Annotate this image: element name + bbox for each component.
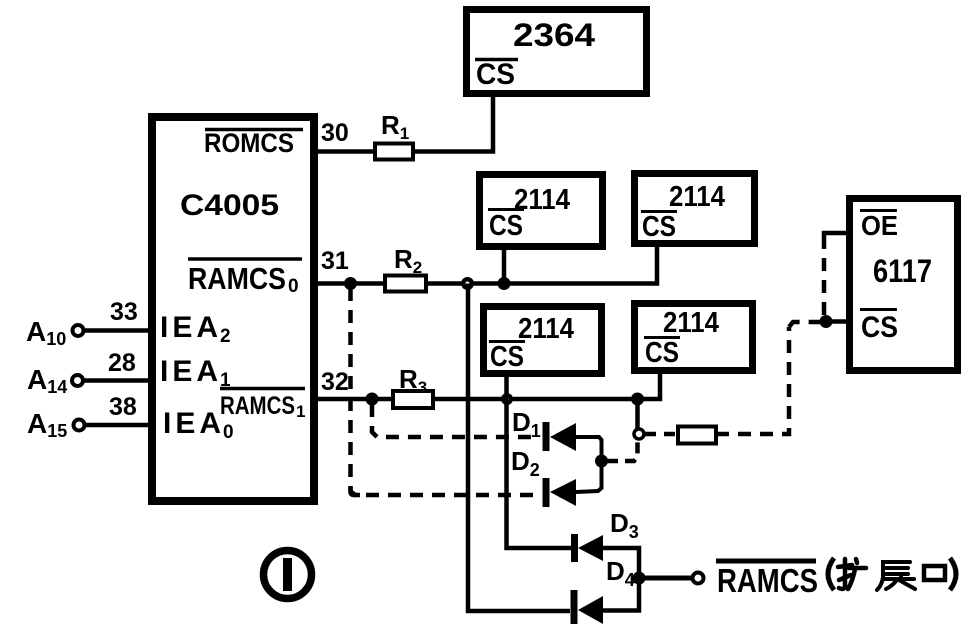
wire node32c down to ring	[635, 399, 640, 429]
IC 2114 box U3 top-left	[480, 175, 603, 247]
IC 2114 box U5 bottom-left	[484, 307, 602, 374]
wire D1 anode to node D	[576, 437, 602, 456]
diode D4 cathode bar	[571, 590, 578, 624]
wire D2 anode to node D	[576, 466, 602, 492]
pin CS 6117 overline	[860, 308, 897, 311]
svg-text:CS: CS	[489, 210, 523, 242]
pin CS of 2364 overline	[475, 58, 518, 62]
diode D4 triangle	[578, 596, 603, 624]
pin CS U5 overline	[489, 340, 525, 343]
wire pin32 RAMCS1 bus	[314, 397, 393, 402]
wire node E to output terminal	[645, 576, 691, 581]
resistor R2 body	[385, 276, 426, 292]
figure number circled 1	[264, 551, 312, 599]
dashed wire R4 to 6117 CS	[716, 327, 789, 434]
annotation closing paren	[950, 558, 956, 590]
wire node G to 6117 CS pin	[826, 319, 846, 324]
input terminal A15 ring	[74, 420, 85, 431]
input terminal A10 ring	[73, 325, 84, 336]
annotation (expansion port) opening paren	[828, 558, 834, 590]
svg-text:2114: 2114	[518, 313, 574, 345]
junction dot node32c	[631, 393, 644, 406]
wire A10 to IEA2	[84, 328, 149, 333]
dashed wire corner to dot G	[789, 322, 820, 327]
junction dot node32b	[501, 393, 513, 405]
svg-text:CS: CS	[490, 341, 524, 373]
IC 2114 box U6 bottom-right	[635, 304, 753, 371]
dashed wire node G up to OE	[822, 238, 827, 315]
pin RAMCS0 overline	[188, 257, 302, 261]
svg-text:38: 38	[109, 393, 137, 421]
dashed wire node32a down to D1 cathode	[372, 404, 540, 437]
diode D1 triangle	[550, 423, 576, 451]
svg-text:6117: 6117	[873, 253, 932, 289]
wire R3 east to 2114 U6	[433, 372, 660, 399]
diode D2 cathode bar	[543, 478, 550, 507]
wire corner to OE pin	[824, 233, 846, 238]
svg-text:0: 0	[288, 276, 299, 297]
IC C4005 box	[152, 117, 314, 501]
svg-text:RAMCS: RAMCS	[188, 261, 286, 296]
svg-text:30: 30	[321, 119, 349, 147]
wire elbow of dashed corner	[351, 487, 361, 495]
resistor R3 body	[393, 391, 433, 408]
svg-text:31: 31	[321, 247, 349, 275]
wire U5 CS down to D3	[507, 377, 572, 548]
pin RAMCS1 overline	[220, 387, 305, 391]
svg-text:RAMCS: RAMCS	[717, 562, 818, 599]
svg-text:OE: OE	[861, 210, 898, 241]
wire A14 to IEA1	[83, 378, 149, 383]
resistor R4 body	[678, 427, 716, 444]
IC 2114 box U4 top-right	[635, 174, 755, 244]
wire A15 to IEA0	[85, 423, 149, 428]
IC 2364 ROM box	[467, 10, 647, 94]
wire R2 east to 2114 U4	[426, 245, 657, 284]
svg-text:C4005: C4005	[180, 189, 279, 222]
dashed wire node D1D2 to ring F	[607, 441, 638, 461]
dashed wire node31a down to D2 cathode	[351, 288, 541, 495]
svg-text:33: 33	[110, 298, 138, 326]
junction dot node G	[820, 315, 833, 328]
svg-text:CS: CS	[642, 211, 676, 243]
output terminal RAMCS ring	[693, 573, 704, 584]
junction dot node E	[633, 572, 646, 585]
svg-text:2114: 2114	[669, 181, 725, 213]
junction dot node D1D2	[595, 455, 608, 468]
wire pin30 ROMCS to R1	[314, 149, 375, 154]
net label RAMCS overline	[716, 559, 816, 564]
svg-text:CS: CS	[476, 58, 515, 91]
diode D3 cathode bar	[571, 534, 578, 562]
wire D3 anode to node E	[603, 548, 639, 573]
junction dot node32a	[366, 393, 379, 406]
diode D3 triangle	[578, 535, 603, 561]
ring node F	[634, 429, 644, 439]
diode D2 triangle	[550, 479, 576, 506]
pin CS U4 overline	[641, 210, 677, 213]
svg-text:CS: CS	[645, 337, 679, 369]
wire R1 to 2364 corner	[413, 93, 493, 152]
wire CS stub U3	[502, 248, 507, 284]
annotation hanzi kou	[924, 566, 945, 580]
wire D4 anode to node E	[603, 583, 639, 611]
junction dot node31c	[498, 277, 511, 290]
dashed wire ring F to R4	[645, 432, 678, 437]
annotation hanzi kuo	[838, 559, 866, 589]
junction dot node31b	[461, 277, 474, 290]
junction dot node31a	[344, 277, 357, 290]
pin CS U6 overline	[644, 336, 680, 339]
svg-text:2364: 2364	[513, 17, 595, 53]
wire long vertical from node31b to D4	[468, 284, 570, 612]
input terminal A14 ring	[72, 375, 83, 386]
svg-text:2114: 2114	[663, 307, 719, 339]
svg-text:1: 1	[296, 402, 305, 421]
annotation hanzi zhan	[877, 562, 915, 590]
pin ROMCS overline	[205, 128, 303, 132]
diode D1 cathode bar	[543, 422, 550, 451]
svg-text:CS: CS	[861, 311, 898, 344]
IC 6117 box	[850, 199, 958, 371]
pin CS U3 overline	[488, 208, 524, 211]
svg-text:32: 32	[321, 368, 349, 396]
svg-text:ROMCS: ROMCS	[204, 128, 294, 158]
wire pin31 RAMCS0 bus	[314, 281, 385, 286]
svg-text:28: 28	[108, 349, 136, 377]
resistor R1 body	[375, 144, 413, 160]
pin OE overline	[860, 209, 897, 212]
svg-text:RAMCS: RAMCS	[220, 392, 295, 420]
